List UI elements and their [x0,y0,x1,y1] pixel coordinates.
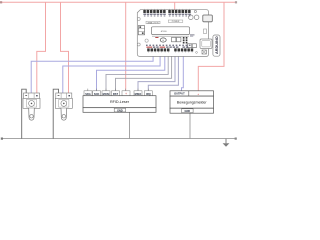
mounting hole left lower edge [137,43,140,46]
header digital top-left group [143,10,165,13]
vertical label plate right of board [213,35,220,56]
mounting hole top-left edge [137,18,140,21]
svg-text:ANALOG IN: ANALOG IN [148,21,159,24]
ground symbol [223,139,230,147]
body [55,98,72,108]
mounting tab [29,108,35,120]
ICSP header [183,37,188,44]
tiny silk marks [155,36,158,39]
wire: black module2 - to GND rail [53,89,58,138]
header power top-right group [168,10,190,13]
silk label box analog [146,21,160,23]
wire: blue board pin to RFID IRQ [148,52,178,91]
svg-text:POWER: POWER [172,21,180,23]
wire: gray board pin to RFID SCK [106,52,168,91]
svg-text:SCK: SCK [94,92,100,96]
wire: red to module2 + [61,2,69,93]
svg-text:SDA: SDA [85,92,91,96]
motion sensor U3 Bewegungsmelder [170,91,214,113]
module M2 (lock/buzzer) [55,93,72,120]
pin label row bottom [146,45,191,48]
wire: black module1 - to GND rail [22,89,27,138]
svg-text:ARDUINO: ARDUINO [215,36,219,54]
node endpoint left of top rail [0,1,2,3]
svg-text:∞: ∞ [162,39,164,42]
mounting tab [61,108,67,120]
body [23,98,40,108]
wire: gray GND bottom rail [2,138,236,140]
pin boxes [84,91,152,96]
two small boxes lower right [188,44,192,48]
small rect right edge [204,29,207,34]
svg-text:Bewegungsmelder: Bewegungsmelder [177,100,208,104]
board outline [137,10,208,57]
wire: blue board pin to RFID SDA [97,52,165,91]
svg-text:+: + [197,92,199,96]
tiny circle bottom [196,52,198,54]
hole near chip left [145,39,148,42]
mount square with X [202,50,206,54]
node endpoint left of GND rail [1,138,3,140]
wire: red to Bewegungsmelder + [198,2,224,91]
IC socket strip [152,35,189,37]
svg-text:GND: GND [185,110,191,113]
two small boxes mid [172,37,176,41]
node endpoint right of GND rail [235,138,237,140]
wire: red to board 5V pin [174,2,176,14]
module M1 (lock/buzzer) [23,93,40,120]
svg-text:ATMEL: ATMEL [161,30,168,33]
terminal block [56,93,72,98]
node endpoint right of top rail [235,1,237,3]
wire: blue board pin to module2 signal [63,52,160,93]
wire: red to module1 + [37,2,46,93]
svg-text:IRQ: IRQ [146,92,151,96]
wire: red +V top rail [1,1,237,3]
capacitor block left [138,26,144,35]
power jack [200,39,212,49]
svg-text:RFID-Leser: RFID-Leser [110,100,130,104]
wire: red to RFID + pin [125,2,127,91]
top pin row [170,91,214,96]
silk label box power [168,20,183,22]
wire: gray board pin to RFID MOSI [116,52,172,91]
svg-text:GND: GND [117,109,123,112]
terminal block [24,93,40,98]
header bottom-left group [147,48,169,51]
bottom row [83,108,156,113]
svg-text:OUTPUT: OUTPUT [174,92,185,96]
svg-text:RST: RST [113,92,119,96]
wire: Bewegungsmelder GND to rail [189,113,191,138]
header bottom-right group [174,48,193,51]
arduino logo [160,38,166,42]
circles top right of board [189,15,194,20]
body [83,96,156,108]
IC chip ATmega [152,27,190,35]
pin label row top [143,14,190,17]
body [170,96,214,108]
wire: blue board pin to RFID MISO [138,52,175,91]
wire: RFID GND to rail [129,112,131,138]
pin stubs [88,89,149,91]
svg-text:MOSI: MOSI [103,92,110,96]
svg-text:MISO: MISO [135,92,142,96]
Arduino board U1 [137,10,212,57]
wire: blue board pin to module1 signal [31,52,153,93]
RFID reader U2 [83,89,156,113]
bottom row [170,108,214,113]
usb connector [203,15,213,22]
wire: blue board pin to Bewegungsmelder OUTPUT [182,52,184,91]
